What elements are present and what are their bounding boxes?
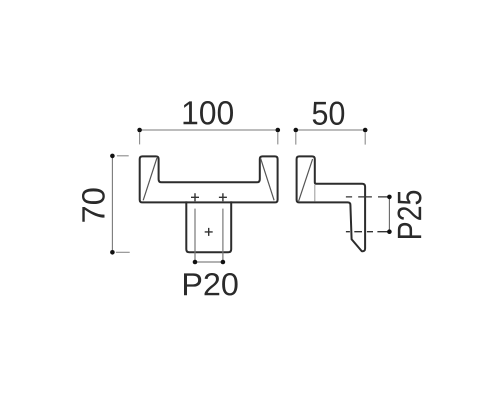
- side view wall/arm junction thin line: [314, 185, 316, 202]
- side view outline: [297, 156, 366, 251]
- dim 50: end dots: [294, 128, 299, 133]
- side view wall chamfer diagonal: [299, 159, 313, 201]
- dim 70: dimension line: [111, 156, 113, 252]
- dim P20: label: [184, 273, 238, 295]
- stem hole centerline right: [222, 209, 224, 262]
- stem hole centerline left: [194, 209, 196, 262]
- dim P25: dimension line: [388, 197, 390, 232]
- dim P20: end dots: [193, 260, 198, 265]
- dashed hidden line upper: [346, 196, 389, 198]
- dim 50: extension stub right: [364, 132, 366, 144]
- dim 70: label (rotated): [82, 188, 105, 221]
- dashed hidden line lower: [346, 231, 389, 233]
- dim 50: dimension line: [296, 129, 365, 131]
- cross mark right top: [219, 193, 227, 201]
- dim 50: label: [313, 101, 345, 125]
- dim 100: extension stub left: [139, 132, 141, 144]
- dim 70: extension stub bottom: [116, 251, 130, 253]
- front view body (U-channel outline): [140, 156, 278, 202]
- dim P20: dimension line: [195, 261, 223, 263]
- dim 50: extension stub left: [295, 132, 297, 144]
- dim 70: end dots: [110, 154, 115, 159]
- front view stem: [186, 201, 231, 252]
- dim P25: label (rotated): [397, 191, 421, 238]
- dim P25: end dots: [387, 195, 392, 200]
- right wall chamfer diagonal: [261, 158, 275, 200]
- dim 100: extension stub right: [277, 132, 279, 144]
- left wall chamfer diagonal: [143, 158, 157, 200]
- dim 100: label: [183, 101, 232, 125]
- cross mark stem center: [205, 228, 213, 236]
- dim 100: dimension line: [140, 129, 278, 131]
- dim 100: end dots: [137, 128, 142, 133]
- cross mark left top: [191, 193, 199, 201]
- dim 70: extension stub top: [117, 155, 129, 157]
